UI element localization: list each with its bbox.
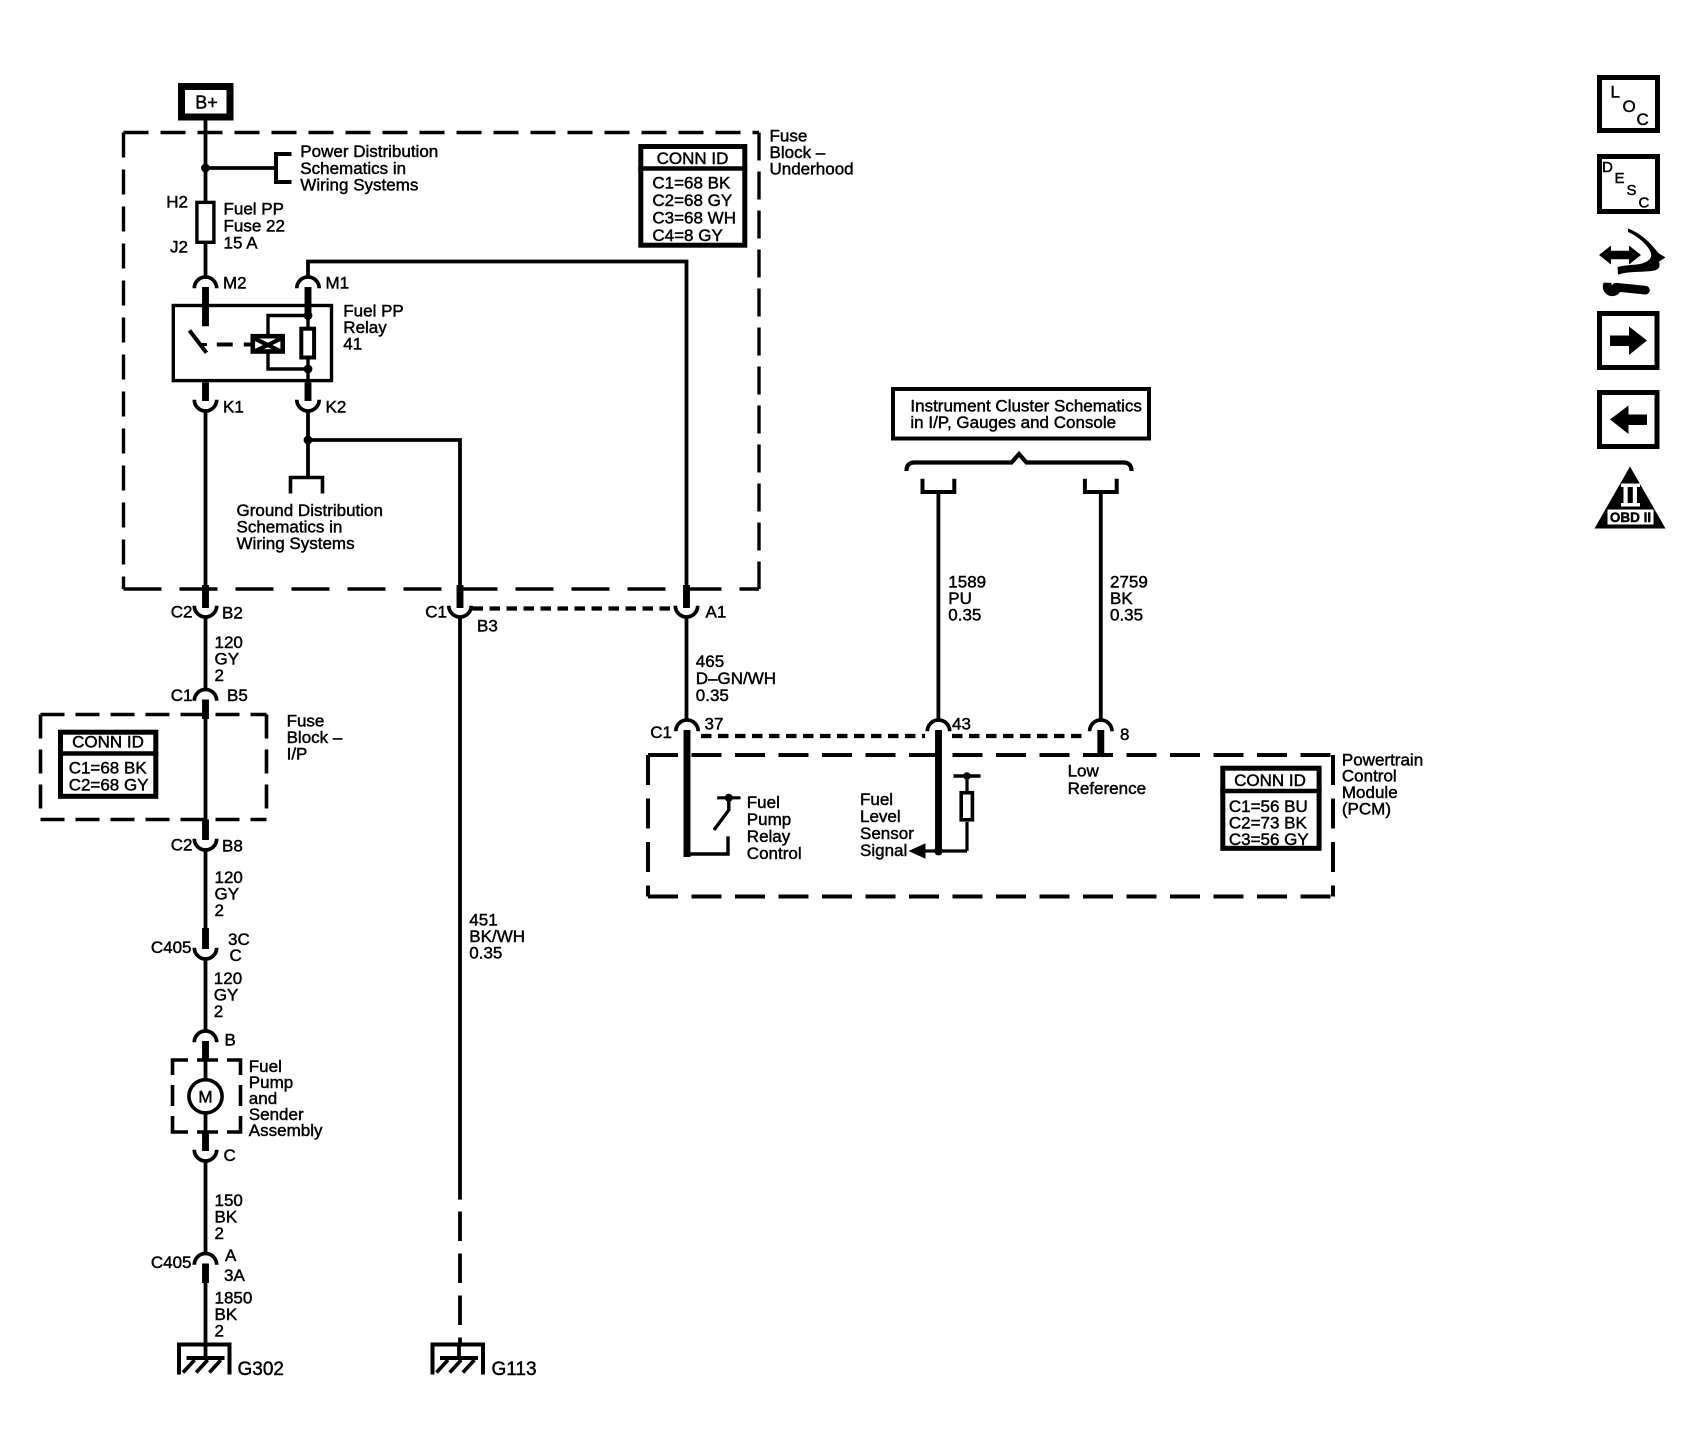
svg-text:41: 41 [343, 334, 362, 353]
svg-text:C3=56 GY: C3=56 GY [1229, 830, 1309, 849]
svg-text:B8: B8 [222, 837, 243, 856]
svg-text:K1: K1 [223, 398, 244, 417]
svg-text:C1=68 BK: C1=68 BK [652, 173, 731, 192]
svg-text:E: E [1615, 170, 1625, 187]
svg-text:S: S [1627, 182, 1637, 199]
svg-text:M: M [198, 1088, 212, 1107]
svg-text:A1: A1 [706, 603, 727, 622]
svg-text:C2=68 GY: C2=68 GY [69, 776, 149, 795]
svg-text:C2=68 GY: C2=68 GY [652, 191, 732, 210]
svg-text:A: A [225, 1246, 237, 1265]
svg-text:Signal: Signal [860, 841, 907, 860]
svg-text:C1: C1 [425, 603, 447, 622]
svg-text:CONN ID: CONN ID [657, 149, 729, 168]
svg-text:Wiring Systems: Wiring Systems [237, 534, 355, 553]
svg-text:C3=68 WH: C3=68 WH [652, 208, 736, 227]
svg-text:C4=8 GY: C4=8 GY [652, 226, 722, 245]
svg-text:B5: B5 [227, 686, 248, 705]
svg-text:C: C [1639, 195, 1650, 212]
svg-text:15 A: 15 A [224, 234, 259, 253]
svg-text:43: 43 [952, 715, 971, 734]
svg-text:CONN ID: CONN ID [72, 733, 144, 752]
svg-text:H2: H2 [166, 193, 188, 212]
svg-text:2: 2 [215, 1322, 224, 1341]
svg-text:O: O [1623, 97, 1636, 116]
svg-text:(PCM): (PCM) [1342, 799, 1391, 818]
svg-text:B2: B2 [222, 604, 243, 623]
svg-text:2: 2 [215, 666, 224, 685]
svg-text:L: L [1611, 83, 1620, 102]
svg-text:2: 2 [215, 1224, 224, 1243]
svg-text:Wiring Systems: Wiring Systems [300, 175, 418, 194]
svg-text:M1: M1 [326, 274, 350, 293]
svg-text:C: C [1637, 110, 1649, 129]
svg-text:C405: C405 [151, 938, 192, 957]
svg-text:0.35: 0.35 [948, 606, 981, 625]
svg-text:CONN ID: CONN ID [1234, 771, 1306, 790]
svg-text:C2: C2 [171, 836, 193, 855]
svg-text:C1=68 BK: C1=68 BK [69, 758, 148, 777]
svg-text:Low: Low [1068, 761, 1100, 780]
svg-text:OBD II: OBD II [1610, 510, 1651, 525]
svg-text:C1: C1 [650, 723, 672, 742]
svg-text:C405: C405 [151, 1253, 192, 1272]
svg-text:0.35: 0.35 [696, 686, 729, 705]
svg-text:B3: B3 [477, 617, 498, 636]
svg-text:Control: Control [747, 844, 802, 863]
svg-text:G113: G113 [492, 1359, 537, 1380]
svg-text:2: 2 [215, 901, 224, 920]
svg-text:C2: C2 [171, 603, 193, 622]
svg-text:0.35: 0.35 [1110, 606, 1143, 625]
svg-text:J2: J2 [170, 238, 188, 257]
svg-text:B: B [225, 1031, 236, 1050]
svg-text:0.35: 0.35 [469, 944, 502, 963]
svg-text:C1: C1 [171, 686, 193, 705]
svg-text:C: C [230, 946, 242, 965]
svg-text:3A: 3A [224, 1266, 245, 1285]
svg-text:K2: K2 [326, 398, 347, 417]
svg-text:M2: M2 [223, 274, 247, 293]
svg-text:I/P: I/P [287, 745, 308, 764]
svg-text:Reference: Reference [1068, 779, 1146, 798]
svg-text:in I/P, Gauges and Console: in I/P, Gauges and Console [910, 413, 1116, 432]
svg-text:2: 2 [214, 1002, 223, 1021]
svg-text:D: D [1602, 159, 1613, 176]
svg-text:B+: B+ [195, 93, 218, 113]
svg-text:Underhood: Underhood [770, 160, 854, 179]
svg-text:Assembly: Assembly [249, 1121, 323, 1140]
svg-text:G302: G302 [238, 1359, 284, 1380]
svg-text:C: C [224, 1146, 236, 1165]
svg-text:8: 8 [1120, 725, 1129, 744]
svg-text:37: 37 [705, 715, 724, 734]
